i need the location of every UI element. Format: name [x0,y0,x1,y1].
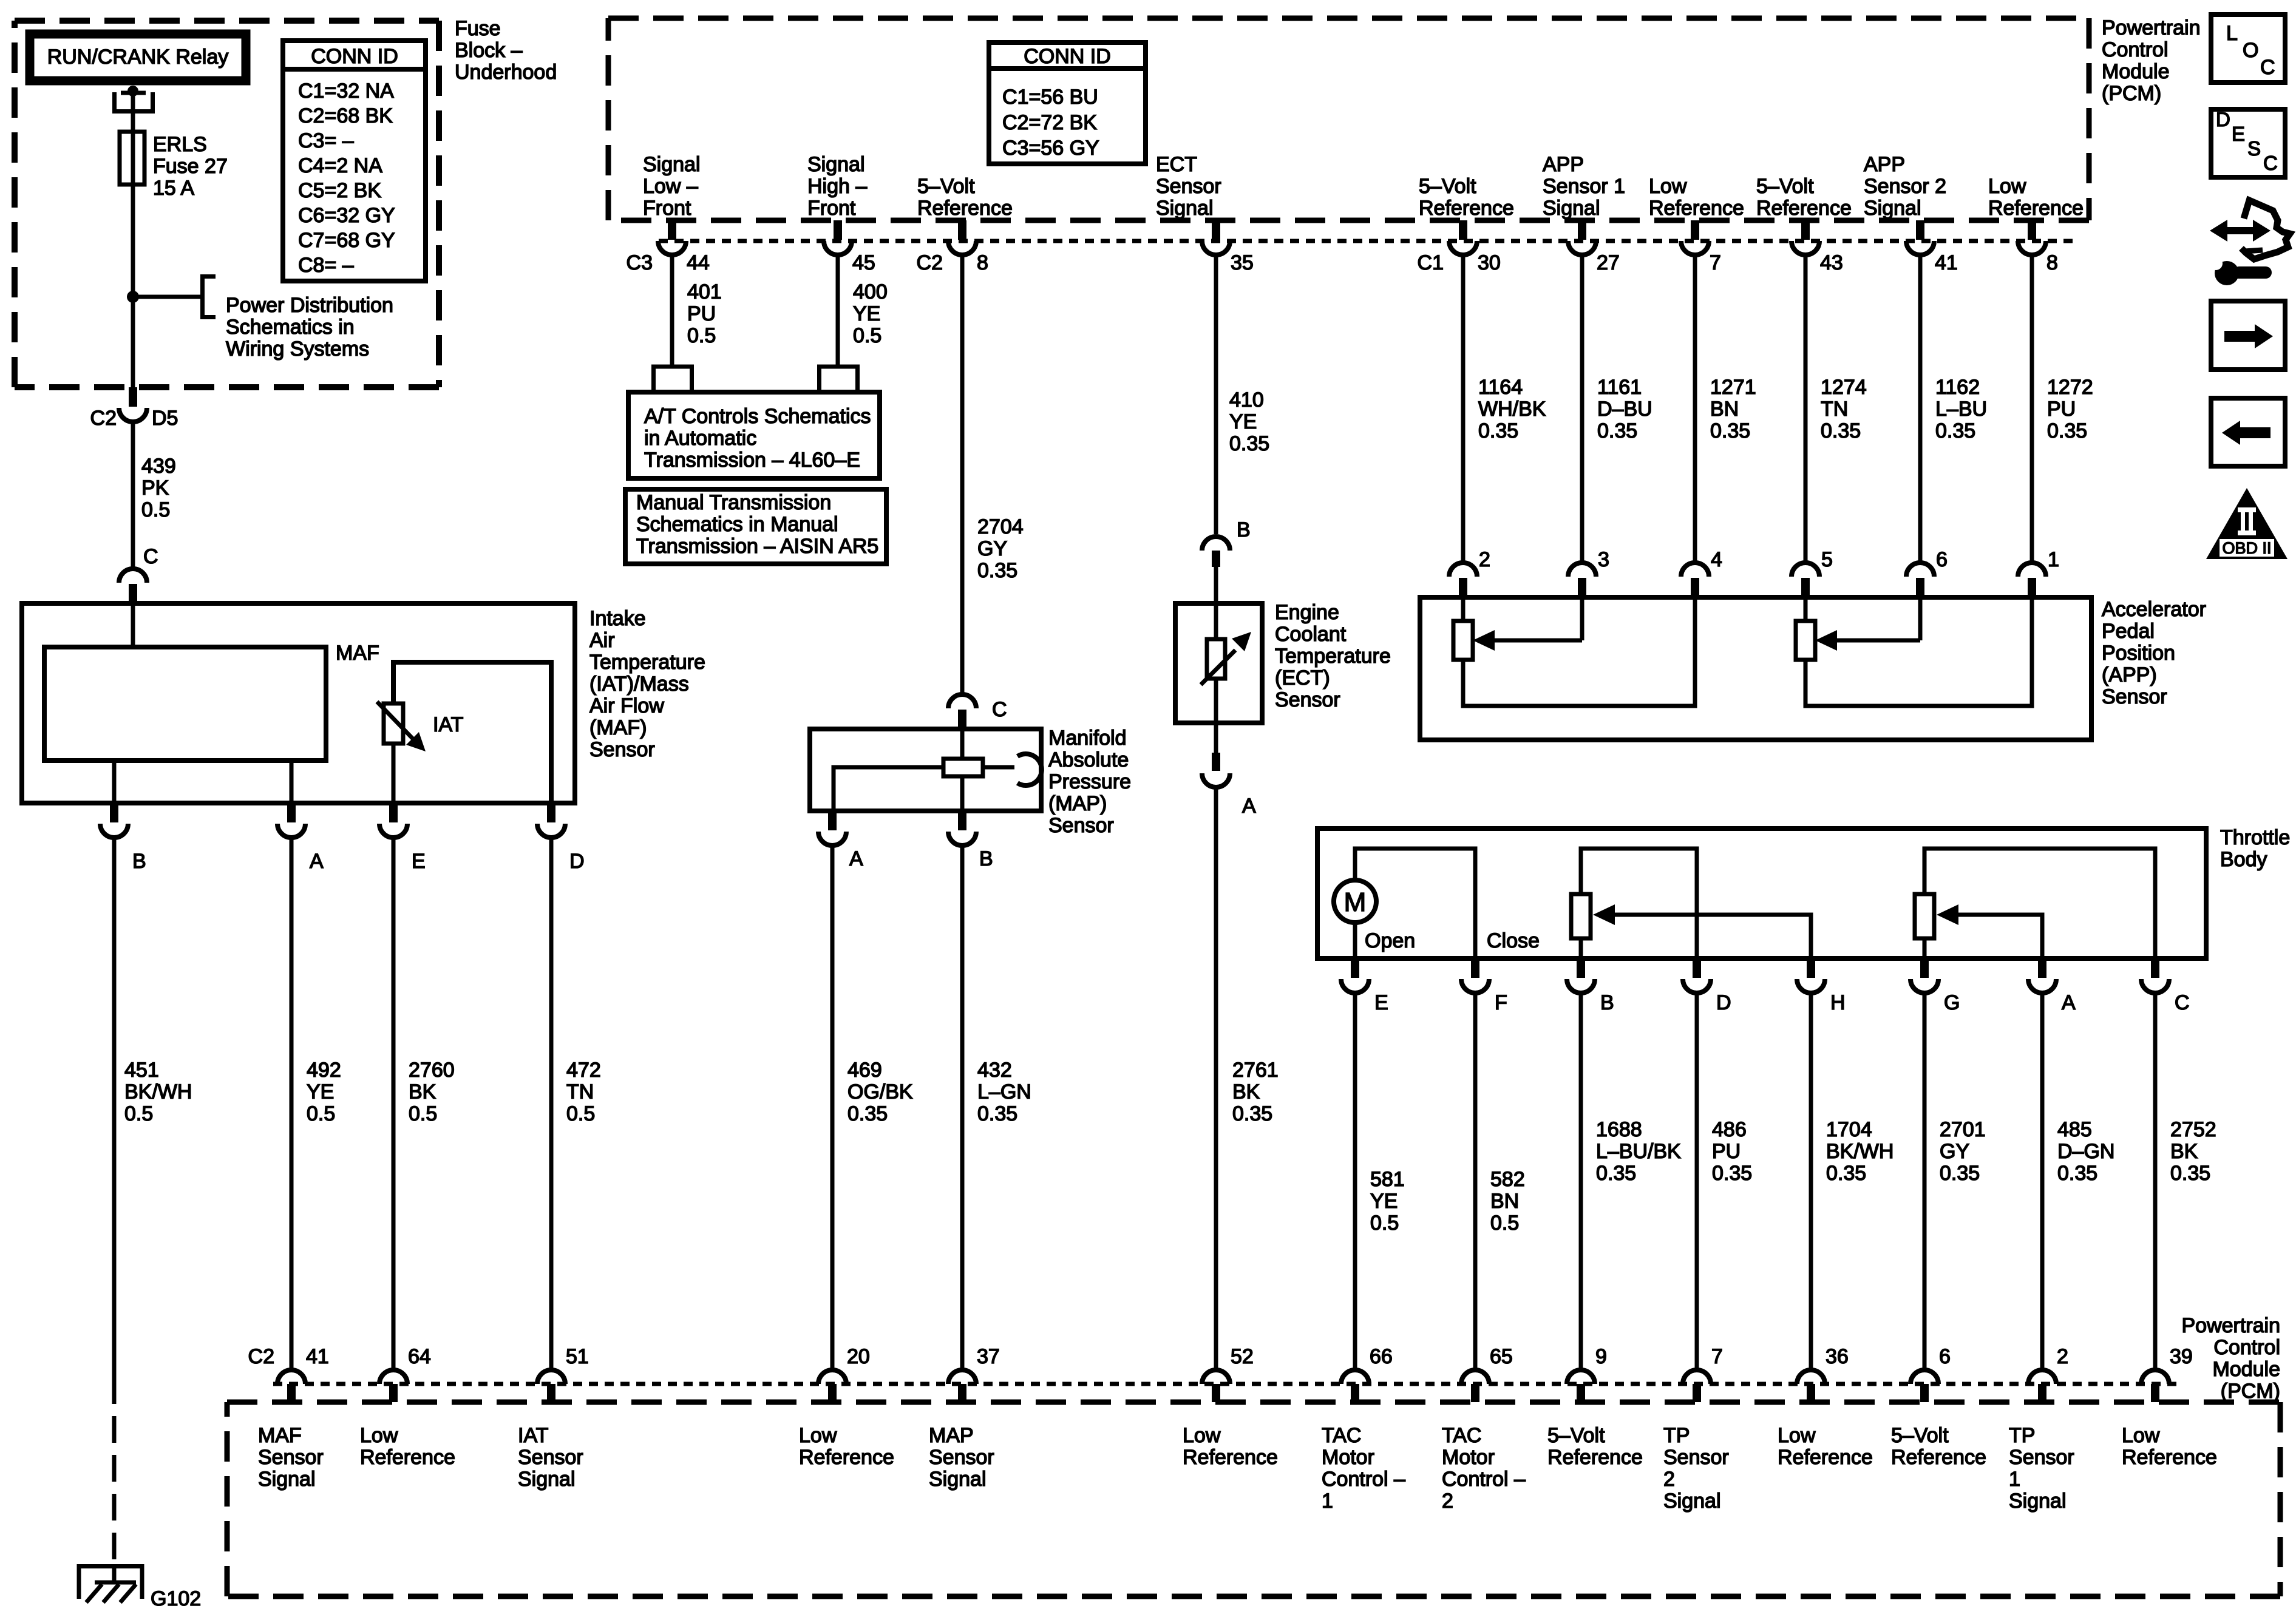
resistor IAT thermistor [384,703,403,744]
svg-text:L–BU: L–BU [1935,398,1987,421]
svg-text:Reference: Reference [1547,1446,1643,1469]
svg-text:PU: PU [1712,1140,1741,1163]
svg-text:MAF: MAF [336,642,379,665]
svg-text:Module: Module [2212,1358,2280,1381]
svg-text:27: 27 [1597,251,1620,274]
svg-text:BK/WH: BK/WH [124,1080,192,1103]
svg-text:Signal: Signal [807,153,865,176]
PCM dashed box (top) [608,18,2089,220]
svg-text:Reference: Reference [1183,1446,1278,1469]
wire MAF pin B [112,761,117,803]
svg-text:O: O [2243,39,2258,62]
svg-text:(MAP): (MAP) [1048,792,1107,815]
MAP internal wiring [834,729,1042,811]
svg-text:C: C [2263,152,2278,174]
svg-text:Block –: Block – [455,39,523,62]
svg-text:YE: YE [1229,410,1257,433]
svg-text:1: 1 [2009,1468,2020,1491]
svg-text:Sensor: Sensor [929,1446,994,1469]
svg-text:Coolant: Coolant [1275,623,1347,646]
inline connector B (ECT) [1202,518,1251,567]
svg-text:TN: TN [566,1080,594,1103]
APP sensor box [1420,597,2091,740]
svg-text:A: A [310,850,324,873]
svg-text:D: D [1716,991,1731,1014]
svg-text:1: 1 [2048,548,2059,571]
svg-text:36: 36 [1826,1345,1849,1368]
svg-text:Air: Air [589,629,615,652]
connector pin 65 (PCM bottom) [1461,1345,1513,1402]
svg-text:41: 41 [1935,251,1958,274]
svg-text:Low: Low [1649,175,1687,198]
svg-text:485: 485 [2057,1118,2092,1141]
wire 1271 BN [1693,254,1697,564]
svg-text:44: 44 [687,251,710,274]
wire 1688 L–BU/BK [1579,992,1583,1370]
wire 1704 BK/WH [1809,992,1813,1370]
svg-text:Sensor: Sensor [1663,1446,1729,1469]
svg-text:PU: PU [687,302,716,325]
svg-text:43: 43 [1820,251,1843,274]
svg-text:Low: Low [360,1424,398,1447]
PCM dashed box (bottom) [227,1402,2280,1596]
svg-text:39: 39 [2170,1345,2193,1368]
svg-text:High –: High – [807,175,867,198]
wire 401 PU [670,254,674,368]
svg-text:0.5: 0.5 [124,1102,153,1125]
svg-text:Sensor: Sensor [2009,1446,2074,1469]
svg-text:5: 5 [1821,548,1833,571]
svg-text:TN: TN [1821,398,1848,421]
svg-text:IAT: IAT [433,713,463,736]
wire 1162 L–BU [1918,254,1923,564]
wire 1161 D–BU [1580,254,1584,564]
wire 1272 PU [2030,254,2034,564]
svg-text:Control: Control [2102,38,2169,61]
IAT thermistor arrow [377,702,426,751]
svg-text:C1: C1 [1418,251,1444,274]
A/T schematics bracket 1 [654,367,692,392]
svg-text:Motor: Motor [1322,1446,1374,1469]
svg-text:Throttle: Throttle [2220,826,2290,849]
svg-text:Low: Low [799,1424,837,1447]
svg-text:Powertrain: Powertrain [2102,16,2201,39]
svg-text:BN: BN [1490,1190,1519,1213]
svg-text:0.35: 0.35 [2047,419,2087,442]
PCM connector dotted line (bottom) [273,1382,2182,1386]
svg-text:45: 45 [852,251,875,274]
svg-text:5–Volt: 5–Volt [1891,1424,1949,1447]
PCM pin name labels [643,153,701,220]
svg-text:2760: 2760 [409,1059,455,1082]
svg-text:E: E [2232,123,2245,145]
svg-text:L–BU/BK: L–BU/BK [1596,1140,1681,1163]
svg-text:H: H [1830,991,1846,1014]
svg-text:1271: 1271 [1710,376,1756,399]
relay pin symbol [115,86,153,112]
connector pin E (Throttle Body) [1341,958,1388,1014]
svg-text:Accelerator: Accelerator [2102,598,2206,621]
pin 41 name label [258,1424,324,1491]
svg-text:Temperature: Temperature [1275,645,1391,668]
svg-text:5–Volt: 5–Volt [1547,1424,1605,1447]
svg-text:Fuse: Fuse [455,17,501,40]
pin 7 name label [1663,1424,1729,1513]
connector pin 44 (PCM top) [627,220,710,274]
wire C inside MAF [131,603,135,647]
ECT sensor box [1175,603,1262,723]
wire 2704 GY (5-volt ref to MAP) [960,254,965,696]
connector pin 27 (PCM top) [1568,220,1620,274]
svg-text:Position: Position [2102,642,2175,665]
svg-text:Manifold: Manifold [1048,727,1127,750]
svg-text:52: 52 [1231,1345,1254,1368]
svg-text:C6=32 GY: C6=32 GY [298,204,395,227]
svg-text:Reference: Reference [1419,197,1514,220]
svg-text:5–Volt: 5–Volt [1756,175,1814,198]
svg-text:Sensor: Sensor [518,1446,583,1469]
connector pin B (MAF/IAT) [100,803,146,873]
APP internal wiring pot 2 [1796,597,2032,706]
connector pin B (MAP) [948,811,993,870]
svg-text:C2: C2 [90,407,117,430]
connector pin 8 (PCM top) [917,220,988,274]
svg-text:A: A [2062,991,2076,1014]
svg-text:Transmission – AISIN AR5: Transmission – AISIN AR5 [636,535,878,558]
svg-text:RUN/CRANK Relay: RUN/CRANK Relay [47,46,229,69]
svg-text:1688: 1688 [1596,1118,1642,1141]
svg-text:1162: 1162 [1935,376,1980,399]
svg-text:0.35: 0.35 [977,559,1017,582]
svg-text:0.5: 0.5 [141,498,170,521]
icon LOC box [2211,15,2285,83]
svg-text:Sensor: Sensor [1275,688,1340,711]
svg-text:Underhood: Underhood [455,61,557,84]
svg-text:L–GN: L–GN [977,1080,1031,1103]
svg-text:0.35: 0.35 [1940,1162,1980,1185]
svg-text:41: 41 [306,1345,329,1368]
svg-text:581: 581 [1370,1168,1405,1191]
svg-text:0.5: 0.5 [409,1102,437,1125]
svg-text:Reference: Reference [1891,1446,1986,1469]
svg-text:OG/BK: OG/BK [847,1080,913,1103]
svg-text:35: 35 [1231,251,1254,274]
svg-text:0.35: 0.35 [1821,419,1861,442]
svg-text:0.35: 0.35 [1597,419,1637,442]
svg-text:Intake: Intake [589,607,646,630]
svg-text:C: C [2175,991,2190,1014]
pin 64 name label [360,1424,455,1469]
svg-text:Pressure: Pressure [1048,770,1131,793]
svg-text:0.5: 0.5 [1370,1212,1399,1235]
svg-text:Reference: Reference [1649,197,1744,220]
svg-text:2: 2 [1442,1490,1453,1513]
svg-text:CONN ID: CONN ID [311,45,398,68]
wire 486 PU [1695,992,1699,1370]
connector pin 3 (APP) [1568,548,1609,597]
connector pin 51 (PCM bottom) [537,1345,589,1402]
svg-text:8: 8 [2046,251,2058,274]
wire MAF pin A [290,761,294,803]
connector pin C (Throttle Body) [2141,958,2190,1014]
svg-text:Sensor: Sensor [1048,814,1114,837]
wire 582 BN [1473,992,1478,1370]
icon DESC box [2211,108,2285,177]
svg-text:Schematics in: Schematics in [226,316,355,339]
svg-text:APP: APP [1864,153,1905,176]
connector pin H (Throttle Body) [1797,958,1846,1014]
svg-text:C: C [2260,56,2275,79]
MAF inner box [44,647,326,761]
svg-text:Pedal: Pedal [2102,620,2155,643]
wire 2701 GY [1923,992,1927,1370]
svg-text:(ECT): (ECT) [1275,666,1330,690]
connector pin 1 (APP) [2018,548,2059,597]
connector pin 5 (APP) [1792,548,1833,597]
label Powertrain Control Module (PCM) top [2102,16,2201,105]
connector pin A (MAP) [818,811,863,870]
wire 439 PK [131,421,135,571]
svg-text:IAT: IAT [518,1424,548,1447]
svg-text:BN: BN [1710,398,1739,421]
svg-text:B: B [1600,991,1614,1014]
wire 485 D–GN [2040,992,2045,1370]
svg-text:D–GN: D–GN [2057,1140,2114,1163]
pin 37 name label [929,1424,994,1491]
wire 472 TN [549,836,554,1370]
svg-text:Close: Close [1487,929,1540,952]
svg-text:1164: 1164 [1478,376,1523,399]
svg-text:C2: C2 [248,1345,274,1368]
svg-text:Motor: Motor [1442,1446,1495,1469]
svg-text:D: D [569,850,585,873]
svg-text:B: B [979,847,993,870]
svg-text:3: 3 [1598,548,1609,571]
connector pin 2 (APP) [1449,548,1490,597]
wire 492 YE [290,836,294,1370]
pin 20 name label [799,1424,894,1469]
svg-text:0.35: 0.35 [1935,419,1975,442]
svg-text:C1=32 NA: C1=32 NA [298,80,394,103]
svg-text:Air Flow: Air Flow [589,694,664,717]
svg-text:Low: Low [2122,1424,2160,1447]
svg-text:64: 64 [408,1345,431,1368]
svg-text:ERLS: ERLS [153,133,207,156]
svg-text:PU: PU [2047,398,2076,421]
svg-text:C: C [992,698,1007,721]
wire ECT B to sensor [1214,567,1218,603]
svg-text:C2=72 BK: C2=72 BK [1002,111,1097,134]
svg-text:492: 492 [307,1059,341,1082]
Manual Transmission Schematics box [625,489,886,564]
svg-text:0.35: 0.35 [2170,1162,2210,1185]
svg-text:1704: 1704 [1826,1118,1872,1141]
connector pin 4 (APP) [1681,548,1722,597]
wire 1164 WH/BK [1461,254,1466,564]
svg-text:2704: 2704 [977,515,1024,538]
svg-text:Powertrain: Powertrain [2181,1314,2280,1337]
motor M [1334,880,1376,923]
svg-text:TAC: TAC [1322,1424,1361,1447]
svg-text:ECT: ECT [1156,153,1197,176]
svg-text:C: C [143,545,158,568]
connector pin B (Throttle Body) [1567,958,1614,1014]
svg-text:7: 7 [1711,1345,1723,1368]
svg-text:C3= –: C3= – [298,129,354,152]
svg-text:1272: 1272 [2047,376,2093,399]
svg-text:B: B [1237,518,1251,541]
svg-text:(IAT)/Mass: (IAT)/Mass [589,673,689,696]
svg-text:BK: BK [1232,1080,1260,1103]
icon OBD II triangle [2206,488,2288,559]
svg-text:Reference: Reference [2122,1446,2217,1469]
label Throttle Body [2220,826,2290,871]
svg-text:Open: Open [1365,929,1415,952]
pin 36 name label [1778,1424,1873,1469]
svg-text:S: S [2247,137,2261,160]
wire 2752 BK [2153,992,2158,1370]
icon left arrow box [2211,398,2285,466]
svg-text:2: 2 [2057,1345,2068,1368]
svg-text:M: M [1344,887,1367,917]
resistor TP sensor 2 [1571,849,1811,958]
svg-text:(PCM): (PCM) [2221,1380,2280,1403]
connector pin D (MAF/IAT) [537,803,585,873]
svg-text:(MAF): (MAF) [589,716,647,739]
svg-text:66: 66 [1370,1345,1393,1368]
CONN ID table (PCM) [989,42,1146,164]
wire 1274 TN [1804,254,1808,564]
svg-text:0.35: 0.35 [1232,1102,1272,1125]
svg-text:Low: Low [1778,1424,1816,1447]
label Accelerator Pedal Position (APP) Sensor [2102,598,2206,708]
svg-text:L: L [2226,22,2238,45]
svg-text:2752: 2752 [2170,1118,2216,1141]
label Manifold Absolute Pressure (MAP) Sensor [1048,727,1131,837]
svg-text:0.5: 0.5 [1490,1212,1519,1235]
svg-text:G: G [1944,991,1960,1014]
svg-text:Front: Front [643,197,691,220]
resistor ECT thermistor [1201,603,1251,723]
svg-text:Manual Transmission: Manual Transmission [636,491,831,514]
svg-text:Sensor: Sensor [2102,685,2167,708]
svg-text:4: 4 [1711,548,1722,571]
svg-text:A: A [1242,795,1256,818]
connector pin 2 (PCM bottom) [2028,1345,2068,1402]
svg-text:Reference: Reference [360,1446,455,1469]
pin 65 name label [1442,1424,1526,1513]
svg-text:Reference: Reference [917,197,1013,220]
IAT sub box [393,662,551,803]
svg-text:2: 2 [1663,1468,1675,1491]
connector pin 6 (PCM bottom) [1911,1345,1951,1402]
pin 39 name label [2122,1424,2217,1469]
svg-text:5–Volt: 5–Volt [917,175,975,198]
svg-text:YE: YE [1370,1190,1398,1213]
svg-text:1: 1 [1322,1490,1333,1513]
svg-text:432: 432 [977,1059,1012,1082]
svg-text:Signal: Signal [1156,197,1214,220]
connector pin 20 (PCM bottom) [818,1345,870,1402]
connector C into MAP sensor [948,694,1007,729]
svg-text:Fuse 27: Fuse 27 [153,155,228,178]
svg-text:582: 582 [1490,1168,1525,1191]
wire 581 YE [1353,992,1357,1370]
svg-text:(PCM): (PCM) [2102,82,2161,105]
wire ECT to connector A [1214,723,1218,753]
svg-text:Reference: Reference [1988,197,2084,220]
svg-text:Transmission – 4L60–E: Transmission – 4L60–E [644,449,860,472]
connector pin D (Throttle Body) [1683,958,1731,1014]
svg-text:5–Volt: 5–Volt [1419,175,1476,198]
connector pin 35 (PCM top) [1202,220,1254,274]
svg-text:15 A: 15 A [153,177,194,200]
svg-text:0.35: 0.35 [1712,1162,1752,1185]
svg-text:C4=2 NA: C4=2 NA [298,154,382,177]
svg-text:Module: Module [2102,60,2170,83]
IAT/MAF sensor outer box [22,603,575,803]
svg-text:C2: C2 [917,251,943,274]
svg-text:Sensor: Sensor [1156,175,1221,198]
svg-text:BK: BK [409,1080,436,1103]
svg-text:A/T Controls Schematics: A/T Controls Schematics [644,405,871,428]
svg-text:1161: 1161 [1597,376,1642,399]
svg-text:Sensor 2: Sensor 2 [1864,175,1946,198]
connector pin 41 (PCM bottom) [248,1345,329,1402]
wire 469 OG/BK [830,844,835,1370]
svg-text:Signal: Signal [518,1468,576,1491]
svg-text:8: 8 [977,251,988,274]
connector pin A (Throttle Body) [2028,958,2076,1014]
connector pin 6 (APP) [1906,548,1948,597]
svg-text:439: 439 [141,455,176,478]
svg-text:400: 400 [853,280,888,303]
junction node [127,291,139,303]
connector pin 64 (PCM bottom) [379,1345,431,1402]
svg-text:9: 9 [1595,1345,1607,1368]
svg-text:Front: Front [807,197,856,220]
svg-text:Reference: Reference [799,1446,894,1469]
svg-text:Sensor: Sensor [258,1446,324,1469]
wire 2760 BK [392,836,396,1370]
power distribution reference bracket [203,277,216,317]
connector C2 pin D5 [90,387,178,430]
svg-text:Signal: Signal [643,153,701,176]
connector pin 7 (PCM bottom) [1683,1345,1723,1402]
svg-text:2: 2 [1479,548,1490,571]
svg-text:Engine: Engine [1275,601,1339,624]
svg-text:469: 469 [847,1059,882,1082]
svg-text:37: 37 [977,1345,1000,1368]
svg-text:Schematics in Manual: Schematics in Manual [636,513,838,536]
svg-text:Power Distribution: Power Distribution [226,294,393,317]
svg-text:472: 472 [566,1059,601,1082]
svg-text:BK: BK [2170,1140,2198,1163]
svg-text:WH/BK: WH/BK [1478,398,1546,421]
svg-text:2701: 2701 [1940,1118,1986,1141]
wire 451 BK/WH to ground [112,836,117,1377]
svg-text:C3=56 GY: C3=56 GY [1002,137,1099,160]
label Powertrain Control Module (PCM) bottom [2181,1314,2280,1403]
svg-text:0.35: 0.35 [847,1102,888,1125]
connector pin 41 (PCM top) [1906,220,1958,274]
svg-text:MAP: MAP [929,1424,974,1447]
pin 6 name label [1891,1424,1986,1469]
A/T Controls Schematics box [628,392,880,478]
svg-text:Signal: Signal [1543,197,1600,220]
svg-text:E: E [412,850,426,873]
connector C into MAF sensor [119,545,158,603]
